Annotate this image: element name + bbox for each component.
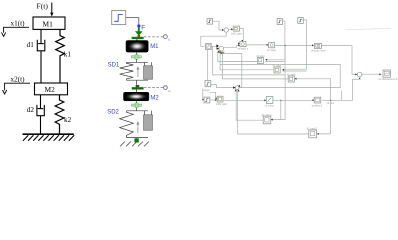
svg-text:F: F <box>141 25 145 32</box>
wire v1 branch across <box>213 46 286 75</box>
wire x1 branch down to gain L <box>271 46 285 120</box>
wire N to sum2 <box>211 85 235 88</box>
wire coupling v1 to sum2 <box>220 64 340 87</box>
damper d2 rod <box>40 95 42 109</box>
leader line x2 <box>5 83 30 90</box>
svg-text:position2: position2 <box>312 104 323 108</box>
wire flange to mass M2 <box>136 90 138 93</box>
wire E to sum S3 <box>321 46 357 75</box>
wire C to integrator D <box>246 44 268 46</box>
wire L to sum2 <box>236 90 263 121</box>
spring k2 <box>55 95 64 134</box>
wire B2 down into sum C <box>240 29 244 42</box>
sum junction sum2 <box>233 85 240 92</box>
wire sum2 up to S2 <box>224 51 242 87</box>
damper d2 piston <box>38 108 44 110</box>
wire H to S2 <box>220 51 274 69</box>
ground hatching <box>23 135 74 141</box>
step source block <box>112 11 126 25</box>
wire O to P <box>210 99 217 101</box>
wire T1 to gain G <box>266 21 285 60</box>
svg-text:x1(t): x1(t) <box>11 20 26 28</box>
wire J to block K <box>273 99 314 101</box>
wire step1 to sum S1 <box>213 21 224 30</box>
sum junction S2 <box>216 44 224 53</box>
mass M2 box <box>35 83 68 95</box>
svg-text:d1 gain: d1 gain <box>256 54 265 58</box>
sum junction S1 <box>224 28 228 32</box>
block E <box>311 43 327 52</box>
wire into source O <box>202 89 205 100</box>
motion arrow SD1 <box>136 66 139 77</box>
source block N <box>203 81 210 92</box>
svg-text:rel displacement: rel displacement <box>378 77 397 81</box>
gain block M <box>307 127 317 138</box>
leader line x1 <box>4 27 29 33</box>
ground fixation square <box>134 138 138 142</box>
mass M2 <box>124 92 149 101</box>
svg-text:SD1: SD1 <box>108 62 120 68</box>
integrator block F1 <box>206 44 212 50</box>
svg-text:k2: k2 <box>64 116 72 124</box>
damper d2 cylinder <box>37 105 44 116</box>
svg-text:M2: M2 <box>45 85 56 94</box>
motion arrow SD2 <box>136 121 139 133</box>
svg-text:d2: d2 <box>27 106 35 114</box>
wire v2 branch down to gain L <box>280 100 282 119</box>
damper d1 piston <box>38 43 44 45</box>
source block T2 <box>298 18 304 24</box>
spring-damper SD1 <box>120 59 152 85</box>
svg-text:d1: d1 <box>27 41 35 49</box>
junction dot c <box>280 100 281 101</box>
dashed sensor line x2 <box>144 87 164 89</box>
gain block L <box>262 113 273 124</box>
svg-text:k2 gain: k2 gain <box>287 72 296 76</box>
open arrowhead x2 <box>3 90 7 94</box>
wire G jog <box>266 60 285 62</box>
svg-text:k1 gain: k1 gain <box>273 63 282 67</box>
scope block I <box>378 70 397 81</box>
integrator block J <box>264 97 274 108</box>
wire force to mass M1 <box>136 39 138 41</box>
gain block P <box>216 96 228 106</box>
wire F1 to sum cluster S2 <box>211 45 218 47</box>
svg-text:x2(t): x2(t) <box>11 76 26 84</box>
wire S2 to sum C <box>224 45 240 47</box>
svg-text:step2: step2 <box>203 88 210 92</box>
wire d1 to M2 <box>40 51 42 83</box>
sum junction S3 <box>357 72 362 79</box>
source block O <box>204 97 210 103</box>
svg-text:k1: k1 <box>64 51 72 59</box>
gain block H <box>273 63 282 73</box>
spring k1 <box>56 29 65 83</box>
open arrowhead x1 <box>2 32 6 36</box>
wire P to integrator J <box>223 99 266 101</box>
wire x2 tap to gain H2 <box>295 79 331 101</box>
junction dot b <box>330 100 331 101</box>
mass M1 box <box>33 17 65 29</box>
ground hatching middle <box>120 142 149 147</box>
wire H jog <box>283 70 307 72</box>
gain block B2 <box>231 26 243 35</box>
damper cylinder SD2 <box>144 115 153 130</box>
wire d2 to ground <box>40 116 42 134</box>
svg-text:d2 gain2: d2 gain2 <box>262 113 273 117</box>
wire N branch to P upper input <box>210 92 217 98</box>
source block T1 <box>277 19 283 25</box>
wire M to sum2 <box>238 90 309 134</box>
wire F1 down to source N <box>207 50 209 81</box>
spring-damper SD2 <box>120 108 152 139</box>
ground line <box>23 133 74 135</box>
svg-text:1/M2 gain: 1/M2 gain <box>216 102 228 106</box>
wire S1 branch to integrator F1 <box>201 32 226 46</box>
damper d1 cylinder <box>37 40 45 51</box>
svg-text:velocity sens: velocity sens <box>311 48 327 52</box>
damper cylinder SD1 <box>144 66 153 79</box>
wire S1 to gain B2 <box>228 28 232 30</box>
wire S3 to scope I <box>362 73 381 75</box>
damper d1 rod <box>40 29 42 43</box>
flange connector under M2 <box>132 101 142 108</box>
svg-text:SD2: SD2 <box>107 110 119 116</box>
integrator block D <box>267 43 277 52</box>
dashed sensor line x1 <box>144 36 164 38</box>
wire G to S2 <box>218 51 257 61</box>
sum block C <box>238 42 249 51</box>
svg-text:v2 integ: v2 integ <box>264 104 274 108</box>
gain block H2 <box>287 72 296 82</box>
svg-text:velocity s: velocity s <box>238 46 249 50</box>
wire K to S3 <box>322 77 360 100</box>
wire T2 to gain H <box>283 20 307 69</box>
sensor node circle x2 <box>164 86 168 90</box>
flange T-connector with sensor tap <box>132 85 144 90</box>
force element F <box>132 25 144 39</box>
svg-text:k2 gain2: k2 gain2 <box>307 127 317 131</box>
mass M1 <box>126 41 148 53</box>
gain block G <box>256 54 265 64</box>
svg-text:M1: M1 <box>150 44 159 50</box>
wire stub junction a <box>341 91 343 101</box>
svg-text:M2: M2 <box>150 95 159 101</box>
flange connector under M1 <box>131 55 141 60</box>
wire H2 to S2 <box>223 51 289 79</box>
force arrow F(t) <box>50 3 53 17</box>
sensor node circle x1 <box>164 35 168 39</box>
wire step to force <box>126 18 139 25</box>
wire D to block E <box>275 44 314 46</box>
svg-text:M1: M1 <box>43 19 54 28</box>
block K <box>312 97 323 107</box>
faint annotation line top right <box>345 28 391 30</box>
junction dot a <box>284 45 285 46</box>
wire x2 tap down to gain M <box>317 100 330 134</box>
svg-text:F(t): F(t) <box>37 2 49 11</box>
svg-text:x1 integ: x1 integ <box>267 48 277 52</box>
source block step1 <box>207 19 213 25</box>
svg-text:1/M1 gain: 1/M1 gain <box>231 31 243 35</box>
wire M1 to flange <box>136 52 138 56</box>
